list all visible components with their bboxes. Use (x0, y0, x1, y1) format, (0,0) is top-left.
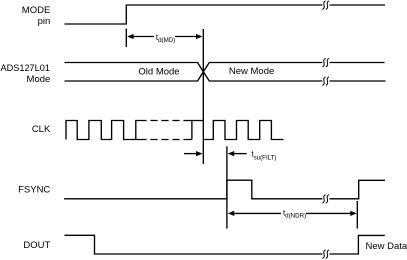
svg-text:td(NDR): td(NDR) (283, 208, 306, 219)
svg-text:td(MD): td(MD) (156, 33, 175, 44)
svg-text:ADS127L01: ADS127L01 (0, 63, 50, 73)
td(NDR) right arrowhead (350, 211, 357, 216)
MODE pin waveform (65, 5, 386, 24)
td(MD) left arrowhead (127, 34, 134, 39)
svg-text:CLK: CLK (32, 124, 51, 135)
td(MD) dimension line right segment (175, 36, 198, 38)
tsu(FILT) right arrow line (232, 153, 247, 155)
FSYNC reference vertical line (226, 146, 228, 228)
tsu(FILT) right arrowhead pointing left (228, 151, 235, 156)
svg-text:New Data: New Data (366, 241, 407, 252)
svg-text:Mode: Mode (27, 74, 51, 85)
svg-text:FSYNC: FSYNC (18, 184, 50, 195)
break symbol MODE line (322, 1, 329, 10)
ADS127L01 Mode bus old-mode bottom line (65, 72, 204, 81)
ADS127L01 Mode bus old-mode top line (65, 63, 204, 72)
break symbol Mode bus top line (322, 58, 329, 67)
td(MD) dimension line left segment (132, 36, 154, 38)
svg-text:DOUT: DOUT (23, 240, 50, 251)
ADS127L01 Mode bus new-mode top line (203, 63, 384, 72)
break symbol DOUT line (322, 250, 329, 259)
CLK dashed low rail (147, 139, 185, 141)
break symbol FSYNC line (322, 195, 329, 204)
td(NDR) right extension line (356, 201, 358, 229)
svg-text:MODE: MODE (22, 5, 51, 16)
td(MD) right arrowhead (196, 34, 203, 39)
CLK solid resume high rail to mode change (185, 121, 203, 140)
CLK waveform left solid pulses (66, 121, 147, 140)
td(MD) left extension line (125, 29, 127, 48)
tsu(FILT) left arrowhead pointing right (196, 151, 203, 156)
svg-text:pin: pin (38, 16, 51, 27)
td(NDR) dimension line left segment (233, 212, 282, 214)
td(NDR) left arrowhead (228, 211, 235, 216)
svg-text:Old Mode: Old Mode (138, 67, 179, 78)
CLK waveform right pulses (203, 121, 283, 140)
svg-text:New Mode: New Mode (229, 66, 274, 77)
DOUT waveform (65, 235, 385, 254)
FSYNC waveform (64, 180, 385, 199)
ADS127L01 Mode bus new-mode bottom line (203, 72, 385, 81)
break symbol Mode bus bottom line (322, 77, 329, 86)
svg-text:tsu(FILT): tsu(FILT) (251, 150, 276, 162)
tsu(FILT) left arrow line (184, 153, 198, 155)
td(NDR) dimension line right segment (306, 212, 352, 214)
mode change reference vertical line (202, 29, 204, 164)
CLK dashed high rail (147, 120, 185, 122)
